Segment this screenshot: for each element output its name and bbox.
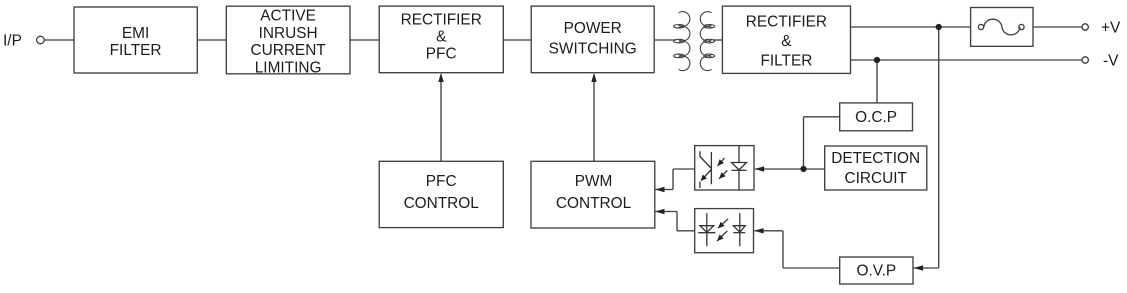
svg-text:FILTER: FILTER	[110, 42, 162, 59]
svg-text:SWITCHING: SWITCHING	[549, 41, 637, 58]
svg-text:PWM: PWM	[575, 173, 613, 190]
svg-text:RECTIFIER: RECTIFIER	[746, 14, 827, 31]
svg-text:PFC: PFC	[426, 173, 457, 190]
svg-text:LIMITING: LIMITING	[255, 59, 322, 76]
svg-text:O.C.P: O.C.P	[855, 109, 897, 126]
svg-text:-V: -V	[1103, 53, 1119, 70]
svg-text:CONTROL: CONTROL	[556, 195, 632, 212]
svg-text:I/P: I/P	[3, 33, 22, 50]
svg-text:&: &	[436, 28, 447, 45]
svg-text:EMI: EMI	[122, 25, 149, 42]
svg-text:FILTER: FILTER	[760, 52, 812, 69]
svg-text:DETECTION: DETECTION	[831, 150, 920, 167]
svg-text:INRUSH: INRUSH	[259, 25, 318, 42]
svg-text:POWER: POWER	[564, 20, 622, 37]
svg-text:ACTIVE: ACTIVE	[260, 8, 316, 25]
svg-text:CURRENT: CURRENT	[250, 42, 326, 59]
svg-text:RECTIFIER: RECTIFIER	[401, 11, 482, 28]
svg-text:+V: +V	[1101, 20, 1121, 37]
svg-text:CONTROL: CONTROL	[404, 195, 480, 212]
svg-text:&: &	[781, 33, 792, 50]
svg-text:O.V.P: O.V.P	[856, 263, 896, 280]
svg-text:CIRCUIT: CIRCUIT	[844, 170, 907, 187]
svg-text:PFC: PFC	[426, 45, 457, 62]
